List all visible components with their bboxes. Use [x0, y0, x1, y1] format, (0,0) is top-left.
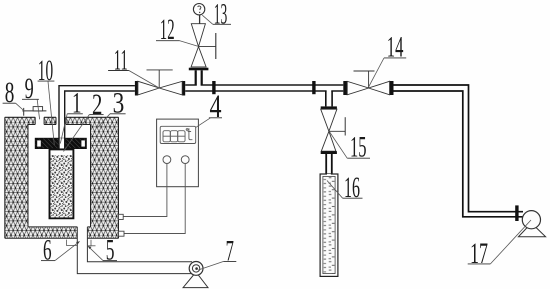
valve 11 — [135, 70, 185, 96]
label 14 — [369, 31, 407, 87]
sample 2 stipple fill — [51, 155, 73, 217]
label 9 — [22, 72, 40, 119]
pipe from vessel to valve 11 — [59, 86, 135, 149]
valve 15 stem upper — [326, 91, 332, 107]
label 8 — [3, 76, 25, 111]
valve 12 stem — [189, 68, 209, 85]
label 4 — [196, 89, 222, 127]
label 15 — [329, 131, 370, 164]
svg-text:16: 16 — [344, 171, 360, 204]
svg-text:5: 5 — [106, 234, 115, 267]
flange F1 on main pipe — [212, 81, 215, 94]
svg-text:12: 12 — [160, 13, 175, 46]
valve 15 — [321, 106, 346, 154]
valve 14 — [343, 71, 393, 95]
svg-text:8: 8 — [5, 76, 15, 109]
thermocouple 8 tick — [22, 108, 46, 116]
pump 7 — [183, 262, 208, 288]
heater wire 5 (lower) — [124, 164, 185, 234]
label 16 — [327, 171, 363, 204]
svg-text:7: 7 — [226, 234, 234, 267]
svg-text:1: 1 — [72, 87, 82, 120]
furnace 3 insulation walls — [5, 117, 119, 238]
label 17 — [468, 220, 531, 270]
autoclave flange lid 10 — [35, 138, 86, 148]
autoclave vessel 1 body — [50, 149, 74, 218]
label 11 — [108, 43, 159, 88]
label 3 — [98, 87, 126, 128]
label 13 — [202, 0, 231, 30]
label 6 — [41, 234, 80, 267]
pressure gauge 13 — [193, 4, 204, 24]
svg-text:6: 6 — [43, 234, 52, 267]
svg-text:2: 2 — [92, 88, 102, 121]
svg-text:4: 4 — [210, 89, 222, 125]
label 7 — [198, 234, 236, 270]
label 10 — [38, 54, 55, 145]
heater wire 6 (upper) — [123, 164, 167, 217]
svg-text:10: 10 — [38, 54, 53, 87]
main pipe from valve 11 to valve 14 — [185, 85, 343, 91]
svg-text:9: 9 — [25, 72, 34, 105]
valve 15 stem lower — [326, 154, 332, 175]
heater terminal upper — [119, 214, 124, 219]
svg-text:13: 13 — [214, 0, 228, 30]
valve 12 — [191, 24, 216, 67]
measuring tube 16 — [320, 174, 338, 276]
flange F2 on main pipe — [312, 81, 315, 94]
flange F3 at pump 17 — [515, 205, 518, 221]
thermocouple plug 9 — [33, 107, 43, 111]
furnace outline — [5, 117, 119, 238]
label 5 — [87, 234, 117, 267]
drain pipe from furnace to pump 7 — [77, 227, 192, 274]
label 12 — [156, 13, 198, 46]
svg-text:17: 17 — [470, 237, 488, 270]
svg-text:11: 11 — [114, 43, 128, 76]
svg-text:15: 15 — [350, 131, 367, 164]
control box 4 — [157, 119, 199, 187]
svg-text:3: 3 — [113, 87, 125, 120]
svg-text:14: 14 — [387, 31, 404, 64]
label 1 — [60, 87, 83, 144]
label 2 — [64, 88, 104, 152]
pipe from valve 14 to pump 17 — [394, 85, 524, 217]
pump 17 — [518, 211, 545, 237]
heater terminal lower — [119, 231, 125, 236]
